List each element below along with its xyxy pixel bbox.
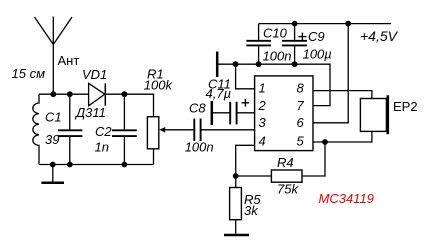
- svg-text:15 см: 15 см: [12, 66, 46, 81]
- svg-text:C8: C8: [189, 100, 206, 115]
- wire top tank rail: [39, 93, 89, 95]
- ground tank: [41, 165, 64, 183]
- wire R4 branch: [302, 142, 325, 176]
- node C1 top: [67, 91, 73, 97]
- svg-text:100n: 100n: [263, 48, 292, 63]
- potentiometer R1: [147, 117, 194, 165]
- node C9 top: [292, 21, 298, 27]
- resistor R5: [230, 188, 242, 234]
- node ground bottom: [50, 162, 56, 168]
- svg-text:+4,5V: +4,5V: [360, 28, 399, 44]
- earphone EP2: [360, 95, 387, 134]
- inductor L1 coil: [33, 94, 39, 164]
- wire +4.5V top rail: [259, 23, 391, 25]
- wire supply drop to pin 6: [313, 24, 348, 123]
- node pin5: [322, 139, 328, 145]
- node C9 rail: [292, 61, 298, 67]
- ground rail side bar: [216, 52, 219, 78]
- wire C11 to pin 2: [237, 112, 255, 114]
- IC U1 MC34119 body: [255, 76, 313, 151]
- svg-text:100n: 100n: [185, 140, 214, 155]
- node C1 bottom: [67, 162, 73, 168]
- wire pin 4 branch: [236, 145, 255, 187]
- svg-text:C10: C10: [263, 25, 288, 40]
- svg-text:EP2: EP2: [393, 99, 418, 114]
- svg-text:VD1: VD1: [82, 67, 107, 82]
- wire diode to R1: [105, 94, 153, 117]
- svg-text:C2: C2: [95, 124, 112, 139]
- wire ground to C11: [212, 112, 230, 114]
- wire pin 8 to EP2 top: [313, 91, 372, 99]
- svg-text:4,7µ: 4,7µ: [206, 86, 232, 101]
- svg-text:3: 3: [259, 115, 267, 130]
- svg-text:6: 6: [297, 115, 305, 130]
- capacitor C11: [230, 99, 249, 124]
- node C10 rail: [256, 61, 262, 67]
- node antenna top: [50, 91, 56, 97]
- antenna: [35, 17, 73, 95]
- svg-text:5: 5: [297, 134, 305, 149]
- capacitor C10: [246, 24, 271, 65]
- svg-text:8: 8: [297, 81, 305, 96]
- svg-text:MC34119: MC34119: [319, 191, 374, 206]
- diode VD1: [89, 83, 106, 106]
- ground R5: [224, 234, 249, 237]
- svg-text:Ант: Ант: [58, 53, 80, 68]
- wire C8 to pin 3: [201, 129, 255, 131]
- node pin1 rail: [233, 61, 239, 67]
- svg-text:C1: C1: [45, 110, 62, 125]
- wire bottom tank rail: [39, 164, 154, 166]
- wire pin 5 to EP2 bottom: [313, 131, 372, 142]
- svg-text:1n: 1n: [95, 139, 109, 154]
- ground C11 side: [211, 101, 214, 125]
- capacitor C8: [194, 119, 200, 142]
- svg-text:3k: 3k: [244, 203, 259, 218]
- svg-text:39: 39: [45, 132, 59, 147]
- node supply top: [345, 21, 351, 27]
- svg-text:1: 1: [259, 81, 266, 96]
- node R4 R5 pin4: [233, 173, 239, 179]
- svg-text:75k: 75k: [277, 182, 299, 197]
- resistor R4: [236, 170, 302, 182]
- capacitor C2: [112, 94, 137, 164]
- wire ground rail to pin 7: [217, 64, 330, 105]
- wire pin 1 branch: [236, 64, 255, 89]
- svg-text:100µ: 100µ: [303, 46, 332, 61]
- svg-text:100k: 100k: [144, 78, 174, 93]
- svg-text:C9: C9: [308, 29, 325, 44]
- svg-text:R4: R4: [277, 155, 294, 170]
- svg-text:7: 7: [297, 98, 305, 113]
- node C2 top: [122, 91, 128, 97]
- capacitor C9: [282, 24, 307, 65]
- capacitor C1: [58, 94, 83, 164]
- svg-text:Д311: Д311: [74, 105, 106, 120]
- svg-text:4: 4: [259, 134, 266, 149]
- svg-text:2: 2: [258, 98, 267, 113]
- node C2 bottom: [122, 162, 128, 168]
